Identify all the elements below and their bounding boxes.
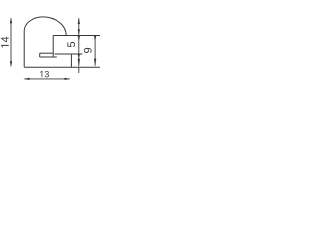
arrow right [65, 78, 71, 80]
arrow down [10, 61, 12, 67]
dimension line 14 [10, 17, 12, 68]
arrow up top [78, 18, 80, 24]
profile left edge [23, 31, 25, 67]
dimension line 9 [94, 36, 96, 67]
dimension line 13 [23, 78, 71, 80]
arrow down bottom [78, 59, 80, 67]
slot bottom [40, 56, 57, 58]
profile nose underside and step extension line [53, 35, 100, 37]
text 5 [67, 42, 75, 47]
text 9 [84, 48, 92, 53]
slot left end [39, 53, 41, 57]
profile bottom edge and extension line [24, 66, 100, 68]
arrow left [23, 78, 29, 80]
profile dome arc [24, 17, 66, 36]
foot top edge extension line [55, 53, 83, 55]
arrow up [10, 17, 12, 23]
text 14 [1, 45, 9, 48]
profile neck vertical [52, 36, 54, 57]
arrow down bottom [94, 59, 96, 67]
profile right edge [70, 54, 72, 67]
wedge below step [94, 36, 96, 41]
wedge below step [78, 36, 80, 41]
dimension line 5 [78, 18, 80, 73]
overshoot tail [78, 67, 80, 73]
text 13 [40, 71, 42, 77]
arrow down at step [78, 29, 80, 35]
slot top [40, 52, 54, 54]
wedge below foot line [78, 54, 80, 58]
